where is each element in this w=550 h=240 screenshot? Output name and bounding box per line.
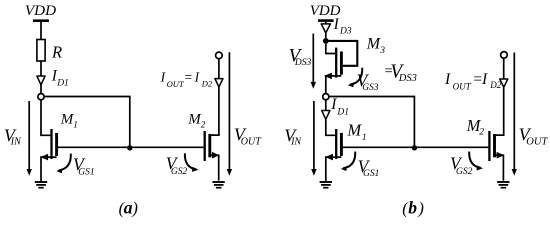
label VGS3 — [357, 71, 379, 93]
junction dot (b) — [412, 145, 417, 150]
transistor M1 gate bar — [50, 129, 52, 159]
label VGS2 (b) — [450, 153, 473, 177]
ground M1 (a) — [35, 182, 47, 188]
caption (a) — [119, 197, 138, 217]
wire arrow to dot (b) — [325, 33, 327, 39]
svg-text:I: I — [333, 16, 340, 33]
wire resistor to arrow — [40, 61, 42, 76]
wire M3 gate connection — [326, 44, 335, 54]
svg-text:OUT: OUT — [167, 79, 185, 89]
svg-text:2: 2 — [201, 120, 206, 130]
label M1 (b) — [346, 121, 366, 143]
svg-text:I: I — [444, 71, 451, 88]
VOUT measure arrow (a) — [227, 52, 232, 176]
wire node to mirror corner (b) — [329, 97, 415, 148]
wire M1 gate connection — [41, 100, 50, 136]
VOUT measure arrow (b) — [512, 53, 517, 176]
transistor M1 source wire — [41, 157, 57, 182]
svg-text:R: R — [51, 42, 62, 61]
label VIN (b) — [284, 125, 302, 147]
caption (b) — [402, 197, 424, 217]
svg-text:): ) — [417, 199, 424, 218]
VGS3 curved arrow — [348, 68, 362, 88]
transistor M1 source arrow (b) — [325, 154, 333, 161]
svg-text:D1: D1 — [336, 107, 349, 117]
VGS1 curved arrow (b) — [341, 152, 355, 171]
transistor M2 source wire (b) — [495, 155, 504, 180]
label IOUT=ID2 (a) — [160, 69, 213, 89]
wire M1 gate connection (b) — [326, 119, 335, 135]
transistor M3 gate bar — [335, 48, 337, 78]
svg-text:2: 2 — [479, 128, 484, 138]
transistor M2 channel bar (b) — [493, 134, 496, 157]
svg-text:3: 3 — [379, 46, 385, 56]
transistor M2 source wire (a) — [210, 155, 219, 180]
svg-text:D3: D3 — [339, 26, 352, 36]
label VGS1 (b) — [358, 156, 380, 179]
ground M2 (a) — [212, 182, 224, 188]
current arrow ID2 (a) — [215, 79, 223, 87]
svg-text:b: b — [408, 197, 417, 217]
wire VDD to arrow (b) — [325, 22, 327, 24]
label VOUT (b) — [519, 125, 549, 148]
transistor M2 gate bar (b) — [488, 131, 490, 161]
transistor M2 source arrow (a) — [212, 152, 220, 159]
svg-text:=: = — [184, 69, 193, 84]
wire VDD to resistor — [40, 22, 42, 40]
label M1 (a) — [60, 112, 78, 130]
svg-text:I: I — [481, 71, 488, 88]
wire arrow to terminal (a) — [218, 59, 220, 79]
label VGS2 (a) — [166, 154, 188, 177]
svg-text:OUT: OUT — [526, 137, 548, 148]
output terminal circle (b) — [501, 52, 508, 59]
svg-text:DS3: DS3 — [398, 73, 417, 84]
svg-text:GS1: GS1 — [363, 169, 379, 179]
wire gate run M1 drain to M2 gate — [57, 146, 204, 148]
wire arrow to node — [40, 85, 42, 94]
VIN measure arrow (b) — [311, 101, 316, 176]
wire node A to mirror corner — [44, 97, 130, 148]
svg-text:D1: D1 — [56, 79, 69, 89]
label VOUT (a) — [234, 125, 262, 148]
node I D1 (b) — [323, 94, 329, 100]
transistor M2 gate bar (a) — [204, 131, 206, 161]
current arrow ID2 (b) — [500, 79, 508, 87]
transistor M1 source wire (b) — [326, 157, 342, 182]
transistor M2 drain wire (a) — [210, 87, 219, 135]
svg-text:D2: D2 — [489, 80, 501, 90]
svg-text:DS3: DS3 — [294, 58, 312, 68]
svg-text:IN: IN — [290, 136, 302, 147]
svg-text:IN: IN — [10, 136, 22, 147]
output terminal circle (a) — [216, 52, 223, 59]
transistor M3 source arrow — [324, 73, 332, 80]
label VIN (a) — [4, 125, 22, 147]
label =VDS3 — [385, 61, 417, 84]
transistor M1 gate bar (b) — [335, 129, 337, 159]
svg-text:1: 1 — [362, 133, 367, 143]
transistor M3 channel bar — [340, 52, 343, 75]
label M2 (a) — [187, 112, 206, 130]
svg-text:OUT: OUT — [453, 81, 472, 91]
transistor M1 channel bar — [55, 133, 58, 156]
ground M1 (b) — [320, 182, 332, 188]
svg-text:GS2: GS2 — [171, 167, 188, 177]
junction dot M3 — [323, 38, 329, 44]
transistor M1 source arrow — [40, 154, 48, 161]
VGS1 curved arrow (a) — [56, 154, 70, 174]
svg-text:): ) — [131, 199, 138, 218]
junction dot (a) — [127, 145, 132, 150]
VDS3 measure arrow — [311, 34, 316, 89]
resistor R — [37, 40, 45, 62]
VDD rail symbol (b) — [318, 19, 334, 22]
ground M2 (b) — [497, 182, 509, 188]
transistor M2 channel bar (a) — [208, 134, 211, 157]
VGS2 curved arrow (a) — [185, 153, 199, 172]
svg-text:GS1: GS1 — [78, 167, 94, 177]
svg-text:1: 1 — [73, 120, 78, 130]
label VDS3 measure — [289, 45, 312, 68]
label VGS1 (a) — [73, 154, 95, 177]
label ID1 (b) — [330, 96, 349, 117]
label ID3 — [333, 16, 352, 37]
M3 diode-connect loop wire — [326, 41, 358, 66]
svg-text:VDD: VDD — [25, 3, 56, 19]
transistor M2 drain wire (b) — [495, 87, 504, 135]
VGS2 curved arrow (b) — [469, 152, 483, 171]
svg-text:M: M — [346, 121, 362, 140]
label M3 — [366, 36, 385, 57]
VDD rail symbol (a) — [33, 19, 49, 22]
wire node to ID1 arrow (b) — [325, 100, 327, 111]
svg-text:D2: D2 — [201, 79, 213, 89]
svg-text:OUT: OUT — [241, 136, 262, 147]
current arrow ID3 — [321, 24, 330, 33]
label M2 (b) — [466, 116, 485, 138]
current arrow ID1 (b) — [322, 111, 330, 120]
transistor M3 source wire — [326, 76, 342, 94]
label ID1 (a) — [51, 68, 69, 89]
svg-text:GS3: GS3 — [362, 83, 379, 93]
svg-text:GS2: GS2 — [456, 167, 473, 177]
svg-text:I: I — [330, 96, 337, 113]
label IOUT=ID2 (b) — [444, 71, 502, 91]
node A (a) — [38, 94, 44, 100]
VIN measure arrow (a) — [27, 101, 32, 176]
current arrow ID1 (a) — [37, 76, 45, 85]
wire arrow to terminal (b) — [503, 58, 505, 79]
transistor M1 channel bar (b) — [340, 133, 343, 156]
wire gate run (b) — [341, 146, 488, 148]
transistor M2 source arrow (b) — [497, 152, 505, 159]
